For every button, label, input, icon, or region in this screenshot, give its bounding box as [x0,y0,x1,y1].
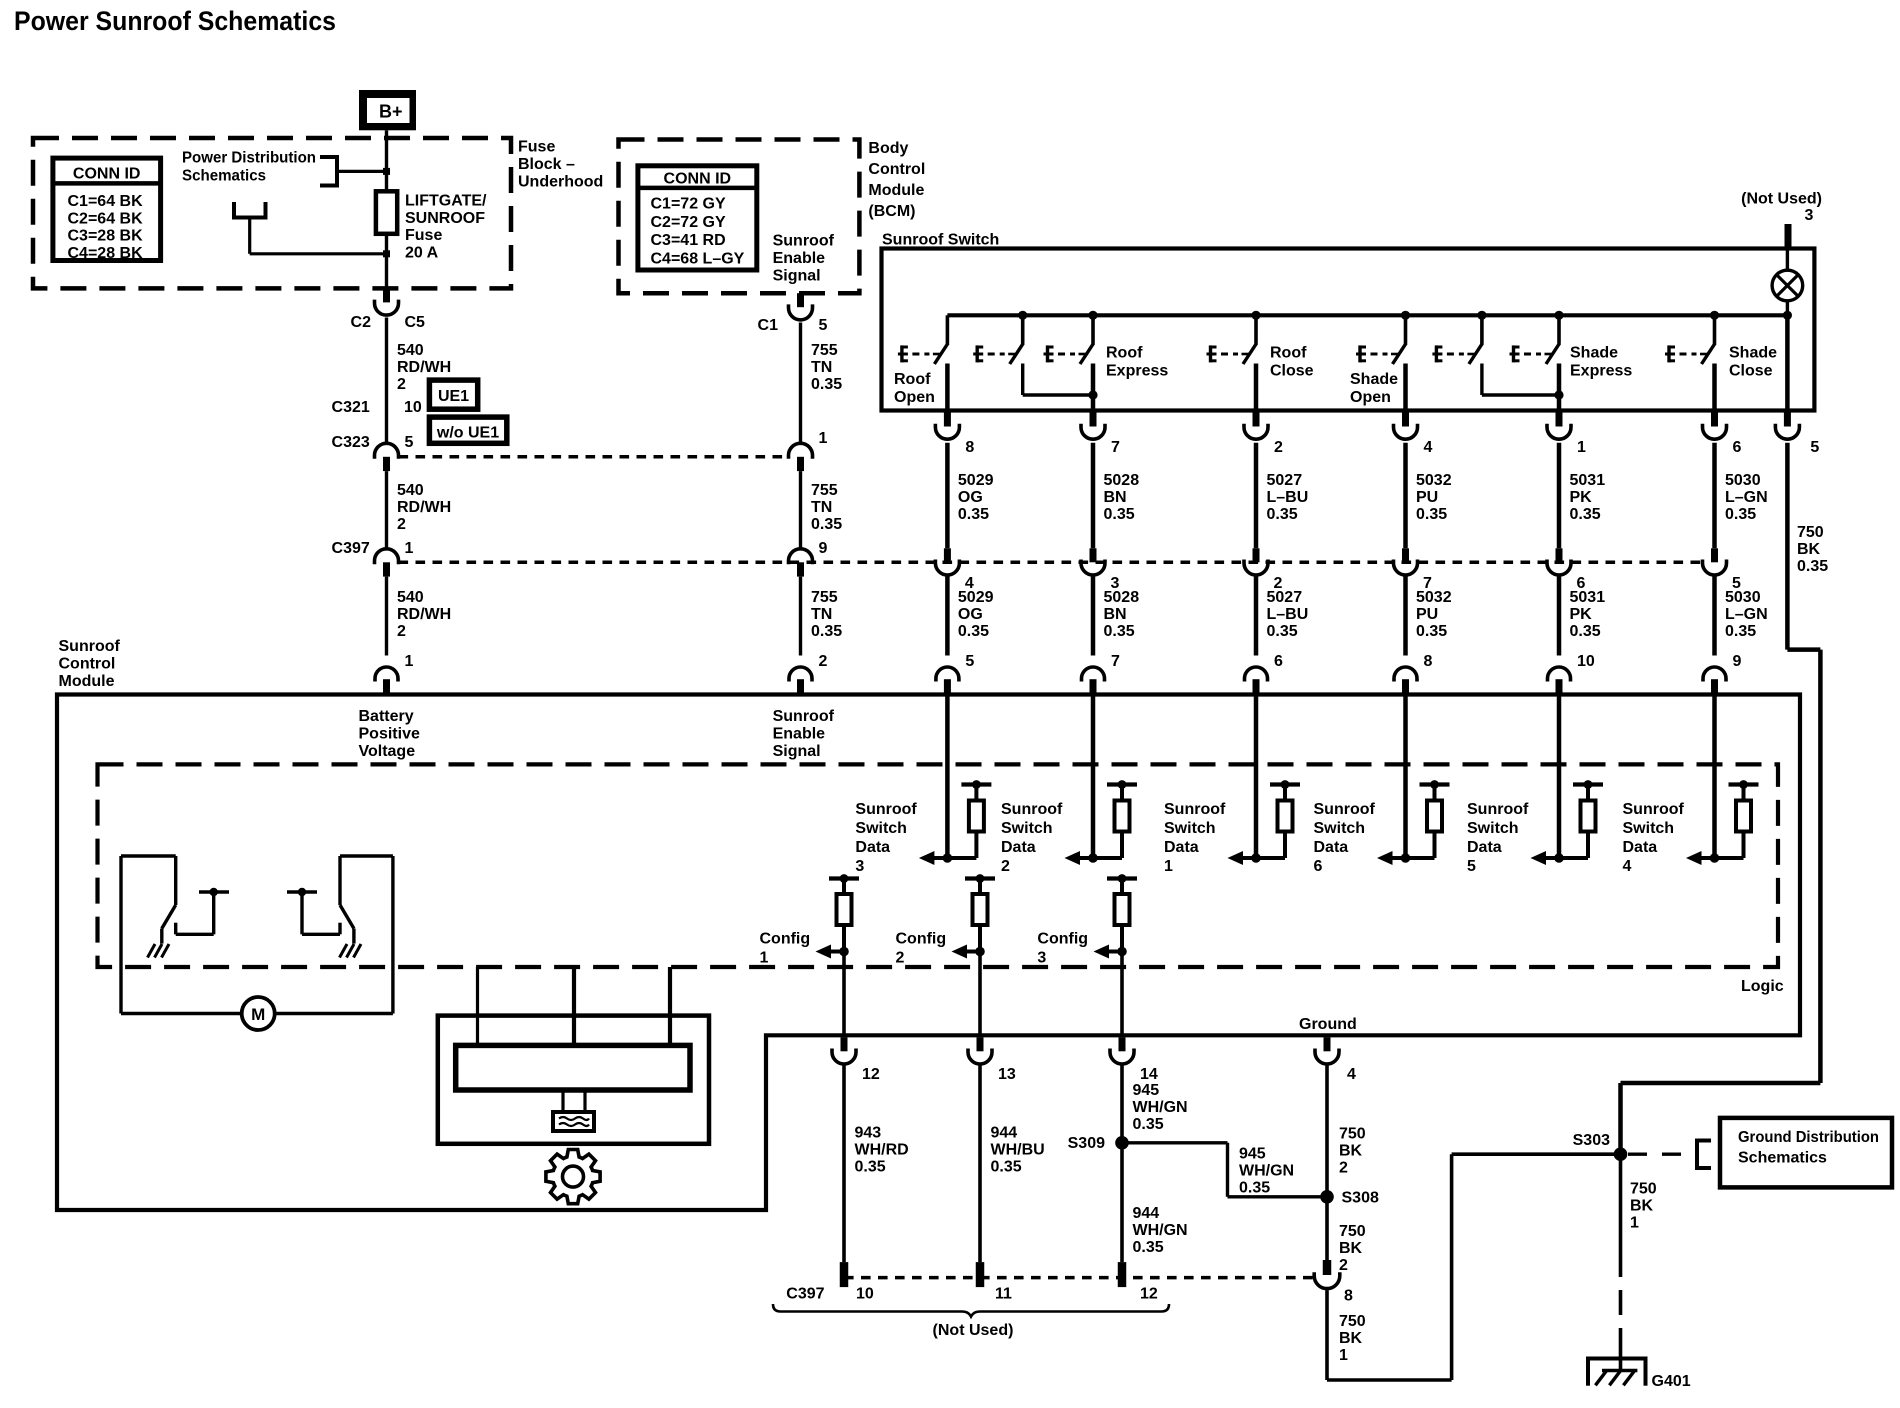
resistor sunroof switch data 6 pull-up and input arrow [1377,695,1450,866]
ground (relay left) [148,944,170,958]
wire 944 WH/BU [978,1066,982,1263]
svg-text:5: 5 [1810,439,1819,456]
svg-text:C4=68 L–GY: C4=68 L–GY [651,250,745,267]
svg-text:C5: C5 [405,314,426,331]
mechanism vent box [553,1112,594,1131]
svg-text:Enable: Enable [773,726,826,743]
connector SCM pin 5 [936,653,975,695]
svg-text:0.35: 0.35 [1104,623,1135,640]
svg-text:PK: PK [1570,489,1593,506]
svg-text:Close: Close [1270,363,1314,380]
connector SCM pin 9 [1703,653,1742,695]
svg-text:9: 9 [1733,653,1742,670]
svg-text:750: 750 [1339,1223,1366,1240]
connector switch pin 1 [1547,413,1586,457]
svg-text:Sunroof: Sunroof [1164,801,1226,818]
connector SCM pin 14 [1110,1037,1158,1083]
svg-text:Switch: Switch [1467,820,1519,837]
label 540 RD/WH 2 (upper) [397,342,451,393]
svg-text:14: 14 [1140,1066,1158,1083]
label 755 TN 0.35 (lower) [811,589,842,640]
wire Shade Express gang link [1482,364,1564,400]
label 750 BK 2 (upper) [1339,1126,1366,1177]
label Shade Close [1729,345,1777,380]
svg-text:0.35: 0.35 [958,506,989,523]
gear icon (sunroof motor gear) [546,1150,600,1204]
svg-text:OG: OG [958,489,983,506]
svg-text:BN: BN [1104,606,1127,623]
svg-text:Fuse: Fuse [518,139,555,156]
svg-text:Open: Open [1350,389,1391,406]
svg-text:2: 2 [819,653,828,670]
svg-text:WH/RD: WH/RD [855,1142,909,1159]
svg-text:L–BU: L–BU [1267,489,1309,506]
svg-text:Sunroof: Sunroof [1467,801,1529,818]
lamp (switch illumination) [1772,270,1803,301]
svg-text:C3=28 BK: C3=28 BK [68,228,144,245]
svg-text:(Not Used): (Not Used) [933,1322,1014,1339]
option box w/o UE1 [429,417,506,443]
svg-text:540: 540 [397,589,424,606]
svg-text:0.35: 0.35 [1267,623,1298,640]
svg-text:8: 8 [1424,653,1433,670]
svg-text:Module: Module [59,673,115,690]
fuse block - underhood (dashed box) [33,138,511,288]
svg-text:0.35: 0.35 [1725,623,1756,640]
svg-text:945: 945 [1133,1082,1160,1099]
label Power Distribution Schematics [182,150,316,185]
svg-text:750: 750 [1797,524,1824,541]
svg-text:2: 2 [1339,1257,1348,1274]
svg-text:540: 540 [397,482,424,499]
label 5032 PU 0.35 (lower) [1416,589,1452,640]
wire 540 RD/WH segment 3 [385,577,388,656]
label Roof Close [1270,345,1314,380]
svg-text:Logic: Logic [1741,978,1784,995]
sunroof switch box [882,249,1815,411]
connector C397 pin 4 [935,548,974,592]
svg-text:6: 6 [1314,858,1323,875]
svg-text:12: 12 [1140,1286,1158,1303]
connector SCM pin 6 [1245,653,1284,695]
connector table CONN ID (BCM) [638,166,757,270]
svg-text:C1: C1 [758,317,779,334]
svg-text:1: 1 [819,430,828,447]
switch Roof Express (a) [973,315,1023,364]
svg-text:755: 755 [811,482,838,499]
switch Shade Express (a) [1432,315,1482,364]
connector SCM pin 10 [1548,653,1595,695]
stub C397 pin 11 (not used) [976,1262,985,1287]
svg-text:0.35: 0.35 [1797,558,1828,575]
svg-text:10: 10 [1577,653,1595,670]
svg-text:0.35: 0.35 [1570,623,1601,640]
svg-text:5029: 5029 [958,589,994,606]
svg-text:Sunroof: Sunroof [1314,801,1376,818]
wire 755 TN segment 1 [799,323,802,444]
svg-text:Data: Data [855,839,890,856]
contact right [287,888,340,935]
resistor sunroof switch data 1 pull-up and input arrow [1228,695,1301,866]
svg-text:C1=64 BK: C1=64 BK [68,193,144,210]
connector SCM pin 7 [1082,653,1121,695]
splice S309 [1068,1135,1129,1152]
svg-text:Close: Close [1729,363,1773,380]
svg-text:S308: S308 [1342,1190,1379,1207]
relay switch right [340,856,354,944]
svg-text:Voltage: Voltage [359,743,416,760]
svg-text:5: 5 [405,434,414,451]
svg-text:BK: BK [1339,1240,1363,1257]
svg-text:RD/WH: RD/WH [397,499,451,516]
svg-text:4: 4 [1347,1066,1356,1083]
svg-text:C321: C321 [332,399,370,416]
label 945 WH/GN 0.35 (splice run) [1239,1146,1294,1197]
connector C397 pin 7 [1394,548,1433,592]
svg-text:Ground Distribution: Ground Distribution [1738,1129,1879,1146]
svg-text:0.35: 0.35 [1267,506,1298,523]
svg-text:0.35: 0.35 [811,376,842,393]
label 755 TN 0.35 (middle) [811,482,842,533]
svg-text:C397: C397 [786,1286,824,1303]
wire 5031 segment 1 [1557,443,1562,549]
svg-text:Roof: Roof [894,371,931,388]
svg-text:11: 11 [995,1286,1012,1303]
connector C397 pin 6 [1547,548,1586,592]
label Sunroof Enable Signal (SCM) [773,708,835,760]
connector table CONN ID (fuse block) [53,158,161,262]
svg-text:BK: BK [1630,1198,1654,1215]
stub C397 pin 12 (not used) [1118,1262,1127,1287]
dashed line connector C397 (bottom) [844,1276,1315,1280]
label Config 2 [896,931,947,967]
splice S303 [1573,1132,1628,1161]
svg-text:Sunroof: Sunroof [855,801,917,818]
wire 755 TN segment 3 [799,577,802,656]
svg-text:943: 943 [855,1125,882,1142]
wire Roof Express output [1091,364,1096,411]
label 944 WH/BU 0.35 [991,1125,1045,1176]
svg-text:Power Sunroof Schematics: Power Sunroof Schematics [14,6,336,36]
svg-text:2: 2 [397,376,406,393]
relay switch left [162,856,176,944]
svg-text:WH/GN: WH/GN [1133,1222,1188,1239]
svg-text:Data: Data [1467,839,1502,856]
svg-text:Switch: Switch [855,820,907,837]
fuse LIFTGATE/SUNROOF 20 A [376,191,397,234]
label Sunroof Switch Data 2 [1001,801,1063,875]
svg-text:750: 750 [1630,1181,1657,1198]
svg-text:Sunroof: Sunroof [59,638,121,655]
label 750 BK 2 (lower) [1339,1223,1366,1274]
svg-text:Data: Data [1001,839,1036,856]
connector C397 pin 5 [1703,548,1742,592]
wire 750 BK 2 (S308 down) [1325,1197,1329,1260]
label 5030 L&#8211;GN 0.35 (lower) [1725,589,1768,640]
svg-text:Sunroof: Sunroof [773,708,835,725]
svg-text:2: 2 [397,623,406,640]
off-page connector to Power Distribution Schematics [320,155,337,188]
svg-text:13: 13 [998,1066,1016,1083]
resistor config 1 and output wire [816,874,860,1035]
svg-text:5032: 5032 [1416,472,1452,489]
wire 5027 segment 2 [1254,577,1259,656]
svg-text:0.35: 0.35 [1239,1180,1270,1197]
svg-text:Roof: Roof [1106,345,1143,362]
svg-text:Roof: Roof [1270,345,1307,362]
svg-text:10: 10 [856,1286,874,1303]
wire 5030 segment 1 [1712,443,1717,549]
connector pin 1 (SCM battery input) [375,667,398,695]
svg-text:Switch: Switch [1314,820,1366,837]
svg-text:944: 944 [991,1125,1018,1142]
svg-text:Signal: Signal [773,268,821,285]
svg-text:755: 755 [811,342,838,359]
wire 750 BK 2 (pin 4 to S308) [1325,1066,1329,1197]
svg-text:Enable: Enable [773,250,826,267]
svg-text:5: 5 [965,653,974,670]
svg-text:2: 2 [397,516,406,533]
label Roof Express [1106,345,1168,380]
option box UE1 [429,380,477,409]
svg-text:0.35: 0.35 [991,1159,1022,1176]
resistor sunroof switch data 3 pull-up and input arrow [919,695,992,866]
svg-text:SUNROOF: SUNROOF [405,210,485,227]
resistor config 3 and output wire [1094,874,1138,1035]
wire 944 WH/GN (S309 down) [1120,1150,1124,1263]
resistor sunroof switch data 2 pull-up and input arrow [1065,695,1138,866]
label Sunroof Switch Data 6 [1314,801,1376,875]
connector C323 in-line (540 wire) [375,443,399,471]
wire 540 RD/WH segment 2 [385,471,388,549]
svg-text:C2=64 BK: C2=64 BK [68,210,144,227]
wire 945 WH/GN (pin 14 to S309) [1120,1066,1124,1143]
dashed link S303 to ground distribution [1628,1152,1686,1155]
svg-text:TN: TN [811,606,832,623]
label Sunroof Enable Signal (BCM) [773,233,835,285]
svg-text:Data: Data [1164,839,1199,856]
splice S308 [1320,1190,1379,1207]
svg-text:5031: 5031 [1570,589,1606,606]
connector C397 in-line (755 wire) [789,549,813,577]
svg-text:Sunroof: Sunroof [1001,801,1063,818]
wire lamp to bus [1786,301,1789,316]
connector SCM pin 8 [1394,653,1433,695]
label 5031 PK 0.35 (lower) [1570,589,1606,640]
connector switch pin 8 [935,413,974,457]
dashed line connector C323 [399,455,789,459]
connector SCM pin 4 (ground) [1315,1037,1356,1083]
label 945 WH/GN 0.35 (pin 14) [1133,1082,1188,1133]
svg-text:5: 5 [1467,858,1476,875]
label 750 BK 1 (bottom) [1339,1313,1366,1364]
svg-text:L–BU: L–BU [1267,606,1309,623]
svg-text:TN: TN [811,499,832,516]
svg-text:5029: 5029 [958,472,994,489]
label 750 BK 0.35 [1797,524,1828,575]
svg-text:Sunroof Switch: Sunroof Switch [882,232,999,249]
wire 750 BK 1 (S303 to G401) [1619,1154,1623,1370]
wire 943 WH/RD [842,1066,846,1263]
wire 5027 segment 1 [1254,443,1259,549]
svg-text:Positive: Positive [359,726,420,743]
svg-text:5028: 5028 [1104,472,1140,489]
svg-text:2: 2 [1339,1160,1348,1177]
svg-text:Express: Express [1570,363,1632,380]
label 944 WH/GN 0.35 [1133,1205,1188,1256]
svg-text:3: 3 [1037,950,1046,967]
svg-text:G401: G401 [1652,1373,1691,1390]
svg-text:w/o UE1: w/o UE1 [436,425,499,442]
stub pin 3 (not used) [1785,224,1792,249]
wire 5032 segment 1 [1403,443,1408,549]
dashed line connector C397 [399,561,1703,565]
svg-text:C2=72 GY: C2=72 GY [651,214,726,231]
wire Shade Open output [1403,364,1408,411]
svg-text:7: 7 [1111,653,1120,670]
svg-text:0.35: 0.35 [1416,623,1447,640]
svg-text:M: M [251,1005,265,1024]
svg-text:1: 1 [1630,1215,1639,1232]
wire 750 BK 0.35 [1621,443,1821,1154]
off-page connector (lower, fuse block) [232,202,268,218]
label Config 1 [760,931,811,967]
svg-text:RD/WH: RD/WH [397,359,451,376]
wire 5031 segment 2 [1557,577,1562,656]
label Sunroof Switch Data 3 [855,801,917,875]
svg-text:RD/WH: RD/WH [397,606,451,623]
svg-text:PK: PK [1570,606,1593,623]
label 750 BK 1 (S303) [1630,1181,1657,1232]
svg-text:Power Distribution: Power Distribution [182,150,316,167]
svg-text:Schematics: Schematics [1738,1150,1827,1167]
svg-text:944: 944 [1133,1205,1160,1222]
svg-text:BK: BK [1339,1330,1363,1347]
sunroof mechanism glass panel [456,1045,690,1090]
connector switch pin 5 (lamp return) [1775,413,1819,457]
svg-text:20 A: 20 A [405,244,439,261]
switch Roof Close [1207,315,1257,364]
mechanism tap wires [478,967,671,1045]
svg-text:4: 4 [1623,858,1632,875]
resistor sunroof switch data 4 pull-up and input arrow [1686,695,1759,866]
wire Shade Close output [1712,364,1717,411]
svg-text:1: 1 [760,950,769,967]
svg-text:Sunroof: Sunroof [773,233,835,250]
svg-text:S303: S303 [1573,1132,1610,1149]
label 5032 PU 0.35 (upper) [1416,472,1452,523]
svg-text:Switch: Switch [1164,820,1216,837]
switch Shade Express (b) [1510,315,1560,364]
wire 5028 segment 1 [1091,443,1096,549]
svg-text:0.35: 0.35 [1133,1239,1164,1256]
svg-text:Open: Open [894,389,935,406]
svg-text:2: 2 [1001,858,1010,875]
svg-text:Sunroof: Sunroof [1623,801,1685,818]
svg-text:4: 4 [1424,439,1433,456]
svg-text:12: 12 [862,1066,880,1083]
svg-text:C397: C397 [332,540,370,557]
svg-text:1: 1 [1164,858,1173,875]
switch supply bus [947,313,1787,317]
switch Shade Open [1356,315,1406,364]
label 5031 PK 0.35 (upper) [1570,472,1606,523]
wire Roof Open output [945,364,950,411]
svg-text:PU: PU [1416,606,1438,623]
wire from lower off-page connector to fuse output [250,218,390,258]
wire 5032 segment 2 [1403,577,1408,656]
svg-text:Control: Control [59,656,116,673]
label 540 RD/WH 2 (lower) [397,589,451,640]
svg-text:5030: 5030 [1725,589,1761,606]
label 5027 L&#8211;BU 0.35 (upper) [1267,472,1309,523]
svg-text:6: 6 [1274,653,1283,670]
contact left [176,888,229,935]
svg-text:9: 9 [819,540,828,557]
svg-text:Data: Data [1623,839,1658,856]
svg-text:750: 750 [1339,1313,1366,1330]
logic dashed box [98,764,1779,967]
svg-text:5031: 5031 [1570,472,1606,489]
svg-text:3: 3 [1805,207,1814,224]
wire 750 BK 1 (to S303) [1327,1154,1621,1380]
svg-text:C4=28 BK: C4=28 BK [68,245,144,262]
svg-text:1: 1 [405,653,414,670]
svg-text:0.35: 0.35 [811,516,842,533]
svg-text:BK: BK [1339,1143,1363,1160]
svg-text:5027: 5027 [1267,589,1303,606]
svg-text:C3=41 RD: C3=41 RD [651,232,726,249]
svg-text:TN: TN [811,359,832,376]
connector C397 pin 8 (750 BK) [1314,1260,1353,1305]
label Battery Positive Voltage [359,708,420,760]
connector C397 pin 2 [1244,548,1283,592]
wire 540 RD/WH segment 1 [385,318,388,444]
svg-text:CONN ID: CONN ID [73,166,141,183]
svg-text:540: 540 [397,342,424,359]
svg-text:L–GN: L–GN [1725,606,1768,623]
svg-text:(Not Used): (Not Used) [1741,191,1822,208]
wire 5028 segment 2 [1091,577,1096,656]
svg-text:Module: Module [868,182,924,199]
connector switch pin 4 [1394,413,1433,457]
body control module (dashed box) [619,140,860,294]
svg-text:1: 1 [1577,439,1586,456]
ground distribution schematics box [1720,1118,1892,1188]
svg-text:Fuse: Fuse [405,227,442,244]
svg-text:0.35: 0.35 [811,623,842,640]
wire 5029 segment 1 [945,443,950,549]
wire Roof Close output [1254,364,1259,411]
svg-text:Express: Express [1106,363,1168,380]
label LIFTGATE/SUNROOF Fuse 20 A [405,193,487,262]
svg-text:1: 1 [1339,1347,1348,1364]
resistor config 2 and output wire [952,874,996,1035]
svg-text:Data: Data [1314,839,1349,856]
wire lamp feed [1786,249,1789,271]
wire Shade Express output [1557,364,1562,411]
svg-text:Config: Config [760,931,811,948]
switch Shade Close [1665,315,1715,364]
label Sunroof Switch Data 5 [1467,801,1529,875]
svg-text:Body: Body [868,140,908,157]
resistor sunroof switch data 5 pull-up and input arrow [1531,695,1604,866]
wire B+ to fuse [385,130,388,191]
brace not used [773,1304,1169,1317]
svg-text:C323: C323 [332,434,370,451]
wire lamp return in box [1785,315,1790,410]
connector C397 pin 3 [1081,548,1120,592]
